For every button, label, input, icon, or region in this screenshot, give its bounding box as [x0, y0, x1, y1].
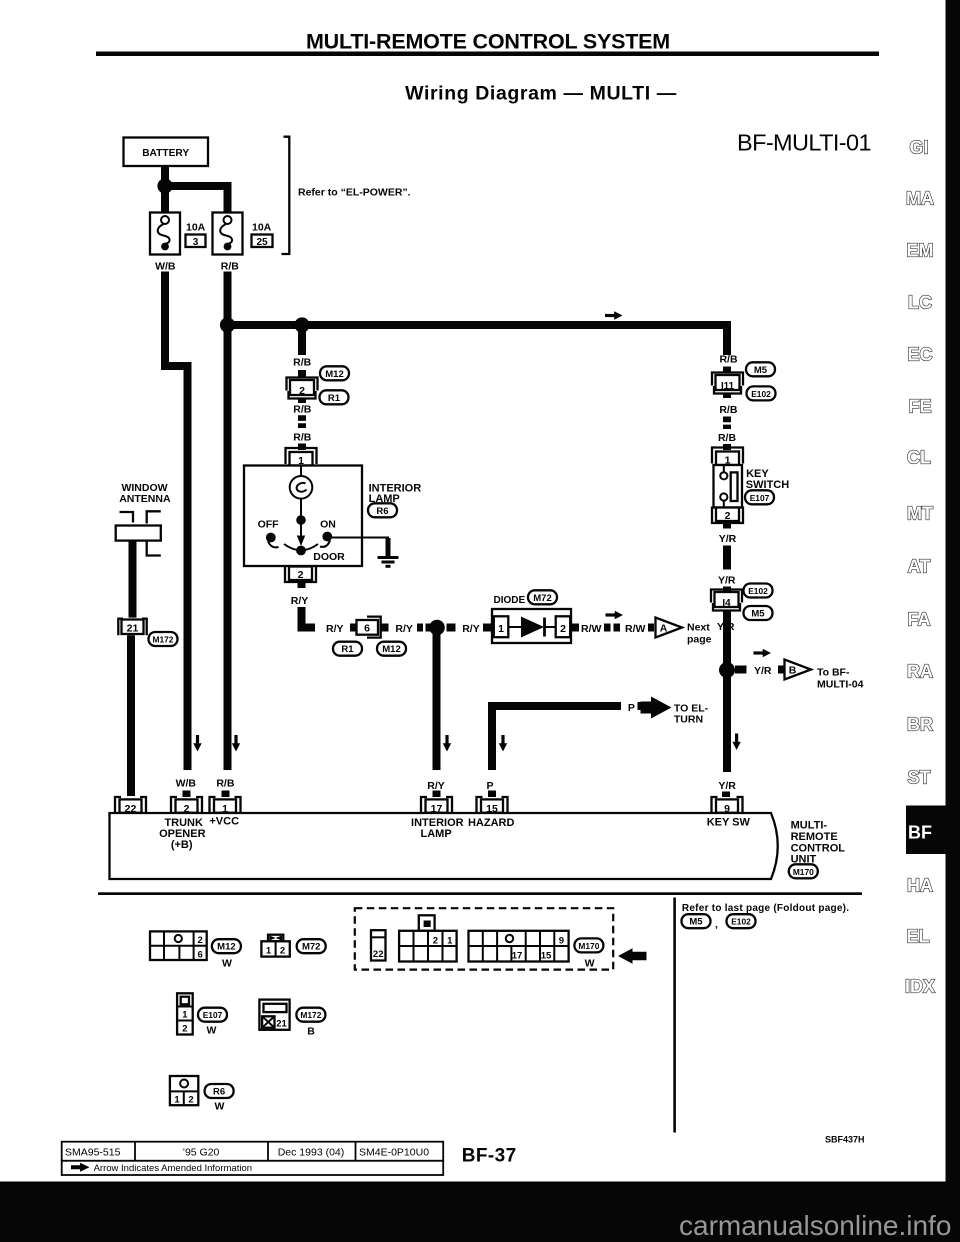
connector id M170: [789, 864, 818, 878]
connector id R6: [368, 503, 397, 517]
amended arrow: [606, 611, 624, 619]
svg-text:M172: M172: [153, 635, 174, 645]
svg-text:(+B): (+B): [171, 839, 193, 851]
svg-text:15: 15: [486, 803, 498, 815]
fuse 25: [213, 213, 243, 255]
connector id M172: [149, 632, 178, 646]
connector 6 R1/M12: [357, 617, 381, 638]
svg-text:Refer to “EL-POWER”.: Refer to “EL-POWER”.: [298, 187, 411, 199]
ground: [378, 558, 399, 567]
connector I4 E102/M5: [711, 590, 742, 611]
svg-text:9: 9: [724, 803, 730, 815]
svg-text:HAZARD: HAZARD: [468, 817, 514, 829]
svg-text:Arrow Indicates Amended Inform: Arrow Indicates Amended Information: [94, 1163, 252, 1174]
connector 2 below key switch: [712, 507, 743, 524]
wire battery down: [161, 166, 169, 213]
svg-text:9: 9: [559, 935, 564, 946]
connector 2 below lamp: [285, 566, 316, 583]
fuse 3: [150, 213, 180, 255]
svg-text:ANTENNA: ANTENNA: [119, 493, 171, 505]
svg-text:R/B: R/B: [293, 403, 312, 415]
battery B+: [124, 137, 732, 797]
connector id M5: [746, 362, 775, 376]
svg-text:W: W: [215, 1101, 225, 1113]
svg-text:IDX: IDX: [905, 977, 935, 997]
svg-text:2: 2: [198, 935, 203, 946]
pinout M172: [259, 1000, 325, 1038]
sidebar section codes: [905, 138, 935, 997]
svg-text:page: page: [687, 634, 712, 646]
svg-text:SM4E-0P10U0: SM4E-0P10U0: [359, 1146, 429, 1158]
key switch output: [711, 507, 773, 798]
svg-text:25: 25: [256, 237, 268, 248]
svg-text:ST: ST: [907, 768, 930, 788]
bus wire R/B: [228, 325, 732, 355]
svg-text:SWITCH: SWITCH: [746, 479, 789, 491]
svg-text:BATTERY: BATTERY: [142, 148, 189, 159]
label MULTI-REMOTE CONTROL UNIT: [791, 819, 846, 865]
connector 21: [118, 618, 146, 636]
svg-text:Y/R: Y/R: [718, 780, 736, 792]
junction dot: [157, 178, 172, 193]
svg-text:CL: CL: [907, 448, 931, 468]
svg-text:2: 2: [560, 623, 566, 635]
svg-text:Y/R: Y/R: [718, 574, 736, 586]
svg-text:carmanualsonline.info: carmanualsonline.info: [679, 1210, 951, 1241]
svg-text:2: 2: [299, 385, 305, 397]
svg-text:W/B: W/B: [155, 260, 176, 272]
pin 2: [556, 616, 571, 637]
wire P: [492, 706, 621, 770]
svg-text:I11: I11: [721, 381, 735, 392]
wire stub: [638, 702, 645, 710]
svg-text:BF-37: BF-37: [462, 1145, 517, 1166]
svg-text:MULTI-REMOTE CONTROL SYSTEM: MULTI-REMOTE CONTROL SYSTEM: [306, 30, 670, 54]
svg-text:10A: 10A: [186, 222, 206, 234]
wire R/Y down and right: [302, 607, 316, 628]
dashed group box: [355, 908, 613, 969]
svg-text:1: 1: [266, 945, 272, 956]
page connector A: [656, 618, 683, 638]
wire Y/R: [723, 546, 731, 570]
connector 1 into lamp: [286, 448, 317, 466]
svg-text:SBF437H: SBF437H: [825, 1135, 865, 1145]
svg-text:2: 2: [433, 935, 438, 946]
svg-text:B: B: [307, 1026, 315, 1038]
pin 9: [712, 797, 743, 813]
svg-text:M12: M12: [217, 942, 235, 953]
svg-text:MT: MT: [907, 504, 933, 524]
pinout M170 small: [371, 930, 386, 960]
wire stub: [723, 587, 731, 593]
svg-text:R/B: R/B: [719, 353, 738, 365]
svg-text:M5: M5: [751, 609, 765, 620]
svg-text:Y/R: Y/R: [754, 665, 772, 677]
svg-text:6: 6: [364, 623, 370, 635]
svg-text:17: 17: [512, 951, 523, 962]
svg-text:M5: M5: [689, 917, 703, 928]
wire stub: [298, 583, 306, 588]
svg-text:21: 21: [276, 1018, 287, 1029]
key slot bar: [731, 472, 738, 501]
svg-text:’95 G20: ’95 G20: [183, 1146, 220, 1158]
wire dot to pin17: [433, 630, 441, 770]
ON contact: [322, 532, 332, 542]
wire stub: [298, 370, 306, 378]
svg-text:E102: E102: [731, 917, 751, 927]
svg-text:1: 1: [498, 623, 504, 635]
wire stub: [648, 624, 654, 632]
svg-text:17: 17: [431, 803, 443, 815]
svg-text:6: 6: [198, 949, 203, 960]
svg-text:M172: M172: [300, 1010, 321, 1020]
junction R/B lamp branch: [294, 317, 309, 332]
svg-text:R/B: R/B: [719, 404, 738, 416]
bottom black band: [0, 1182, 960, 1242]
lamp case: [244, 466, 362, 567]
svg-text:M5: M5: [754, 365, 768, 376]
svg-text:R/W: R/W: [625, 623, 646, 635]
svg-text:P: P: [486, 780, 493, 792]
svg-text:Next: Next: [687, 622, 710, 634]
junction dot: [719, 662, 735, 678]
svg-text:EM: EM: [907, 241, 934, 261]
wire R/B fuse25 down: [224, 272, 232, 771]
svg-text:SMA95-515: SMA95-515: [65, 1146, 121, 1158]
wire stub: [572, 624, 579, 632]
svg-text:2: 2: [188, 1095, 193, 1106]
svg-text:1: 1: [447, 935, 453, 946]
diode to next page: [572, 611, 712, 646]
wire stub: [447, 624, 456, 632]
wire I4 to pin9: [723, 611, 731, 772]
DOOR contact: [296, 546, 306, 556]
svg-text:P: P: [628, 702, 635, 714]
svg-text:R1: R1: [341, 644, 354, 655]
connector I11 M5/E102: [712, 373, 743, 394]
lamp branch wiring: [286, 329, 350, 467]
svg-text:TURN: TURN: [674, 713, 703, 725]
wire stub below connector: [298, 399, 306, 404]
svg-text:MULTI-: MULTI-: [791, 819, 828, 831]
svg-text:R/Y: R/Y: [291, 595, 309, 607]
wire R/B from bus: [298, 329, 306, 355]
amended arrow icon: [71, 1163, 90, 1172]
junction dot: [429, 620, 445, 636]
multi-remote control unit: [110, 797, 778, 879]
wire ON to ground: [332, 538, 389, 553]
svg-text:DIODE: DIODE: [494, 595, 526, 606]
svg-text:M72: M72: [302, 942, 320, 953]
svg-text:2: 2: [280, 945, 285, 956]
connector id E102: [727, 914, 756, 928]
svg-text:R/B: R/B: [718, 432, 737, 444]
svg-text:Wiring Diagram — MULTI —: Wiring Diagram — MULTI —: [405, 83, 677, 105]
connector id M5: [682, 914, 711, 928]
wire stub: [723, 394, 731, 399]
interior lamp R6: [244, 466, 421, 567]
svg-text:E102: E102: [748, 586, 768, 596]
connector id R1: [333, 642, 362, 656]
svg-text:EC: EC: [907, 345, 932, 365]
svg-text:FE: FE: [908, 397, 931, 417]
svg-text:GI: GI: [909, 138, 928, 158]
dashed wire: [417, 624, 432, 632]
pin 1: [494, 616, 509, 637]
wire bulb to switch: [300, 499, 302, 520]
svg-text:10A: 10A: [252, 222, 272, 234]
svg-text:2: 2: [298, 569, 304, 581]
separator line below diagram: [98, 892, 862, 895]
svg-text:M170: M170: [793, 867, 814, 877]
title underline: [96, 52, 879, 57]
pin 2: [171, 797, 202, 813]
svg-text:DOOR: DOOR: [313, 551, 345, 563]
svg-text:LAMP: LAMP: [421, 828, 452, 840]
svg-text:R/W: R/W: [581, 623, 602, 635]
bulb: [290, 476, 313, 499]
connector id M12: [320, 366, 349, 380]
svg-text:LC: LC: [908, 293, 932, 313]
svg-text:REMOTE: REMOTE: [791, 831, 838, 843]
amended arrow down: [732, 734, 740, 751]
connector id M5: [744, 606, 773, 620]
lamp feed wire: [300, 466, 302, 477]
svg-text:Y/R: Y/R: [719, 533, 737, 545]
svg-text:R/B: R/B: [293, 431, 312, 443]
switch junction dot: [296, 515, 306, 525]
wire stub: [723, 367, 731, 374]
hazard branch to EL-TURN: [492, 697, 709, 798]
antenna glass grid symbol: [120, 512, 134, 523]
connector id M12: [377, 642, 406, 656]
pinout M170 middle: [399, 915, 457, 961]
svg-text:E107: E107: [203, 1010, 223, 1020]
key switch branch: [712, 353, 776, 466]
pinout E107: [177, 993, 227, 1036]
svg-text:2: 2: [182, 1024, 187, 1035]
svg-text:M12: M12: [325, 369, 343, 380]
branch to BF-MULTI-04: [735, 649, 864, 691]
key switch E107: [714, 465, 790, 508]
svg-text:I4: I4: [722, 598, 731, 609]
OFF contact: [266, 533, 276, 543]
svg-text:EL: EL: [906, 927, 929, 947]
pin 15: [477, 797, 508, 813]
svg-text:BF-MULTI-01: BF-MULTI-01: [737, 130, 871, 156]
connector id E102: [747, 386, 776, 400]
refer bracket: [282, 137, 290, 254]
svg-text:2: 2: [184, 803, 190, 815]
dashed wire: [298, 415, 306, 428]
wire stub dash: [350, 624, 357, 632]
contact circles: [720, 472, 727, 479]
svg-text:R6: R6: [213, 1087, 225, 1098]
diode case: [492, 609, 571, 643]
svg-text:R1: R1: [328, 393, 341, 404]
amended arrow: [754, 649, 772, 657]
wire stub: [298, 444, 306, 451]
svg-text:W/B: W/B: [176, 778, 197, 790]
svg-text:HA: HA: [907, 876, 933, 896]
page connector B: [785, 660, 812, 680]
dashed wire: [604, 624, 623, 632]
svg-text:A: A: [660, 623, 668, 635]
connector id E107: [745, 490, 774, 504]
wire stub: [723, 524, 731, 529]
svg-text:FA: FA: [907, 610, 930, 630]
svg-text:1: 1: [174, 1095, 180, 1106]
big arrow TO EL-TURN: [641, 697, 672, 719]
big left arrow: [618, 948, 647, 964]
wire stub: [382, 624, 389, 632]
svg-text:W: W: [207, 1025, 217, 1037]
svg-text:1: 1: [222, 803, 228, 815]
wire stub: [778, 666, 784, 674]
svg-text:R/B: R/B: [293, 357, 312, 369]
svg-text:M12: M12: [382, 644, 400, 655]
connector id R1: [320, 390, 349, 404]
svg-text:R/Y: R/Y: [427, 780, 445, 792]
svg-text:Refer to last page (Foldout pa: Refer to last page (Foldout page).: [682, 903, 849, 914]
pin 1: [210, 797, 241, 813]
svg-text:E102: E102: [751, 389, 771, 399]
wire stub: [483, 624, 491, 632]
wire stub: [735, 666, 747, 674]
pinout M12: [150, 931, 241, 969]
junction R/B bus left: [220, 317, 235, 332]
svg-text:MULTI-04: MULTI-04: [817, 678, 864, 690]
svg-text:R/Y: R/Y: [395, 623, 413, 635]
BF section black tab: [906, 806, 946, 855]
svg-text:R/Y: R/Y: [326, 623, 344, 635]
wire antenna down: [129, 541, 137, 618]
diode symbol: [508, 626, 521, 628]
pin 17: [421, 797, 452, 813]
svg-text:B: B: [789, 665, 797, 677]
pinout R6: [170, 1076, 234, 1113]
wire to fuse 25: [165, 186, 228, 213]
svg-text:MA: MA: [906, 189, 934, 209]
svg-text:ON: ON: [320, 518, 336, 530]
contact swing arc: [284, 544, 318, 550]
divider line right of pinouts: [673, 898, 676, 1133]
pin 22: [115, 797, 146, 813]
svg-text:M72: M72: [533, 593, 551, 604]
footer table: [62, 1142, 444, 1175]
svg-text:Dec 1993 (04): Dec 1993 (04): [278, 1146, 345, 1158]
svg-text:R/B: R/B: [221, 260, 240, 272]
wire W/B fuse3 down: [165, 272, 188, 771]
svg-text:22: 22: [373, 949, 384, 960]
svg-text:3: 3: [193, 237, 199, 248]
pinout M170 main: [469, 931, 604, 970]
svg-text:M170: M170: [578, 941, 599, 951]
diode M72: [492, 590, 571, 643]
amended arrow on bus: [605, 311, 623, 319]
svg-text:21: 21: [127, 623, 139, 635]
svg-text:To BF-: To BF-: [817, 666, 850, 678]
svg-text:2: 2: [725, 510, 731, 522]
svg-text:W: W: [585, 957, 595, 969]
battery: [124, 138, 209, 167]
svg-text:W: W: [222, 958, 232, 970]
svg-text:AT: AT: [908, 557, 931, 577]
right page-edge black strip: [946, 0, 960, 1242]
svg-text:,: ,: [715, 919, 718, 931]
svg-text:22: 22: [125, 803, 137, 815]
svg-text:OFF: OFF: [258, 518, 280, 530]
wire 21 to pin22: [127, 635, 135, 796]
svg-text:E107: E107: [750, 493, 770, 503]
svg-text:15: 15: [541, 951, 552, 962]
amended arrows above unit pins: [193, 735, 201, 752]
svg-text:R/Y: R/Y: [462, 623, 480, 635]
contact feed line: [723, 465, 725, 472]
svg-text:KEY SW: KEY SW: [707, 817, 751, 829]
pinout M72: [261, 935, 325, 957]
connector 1 into key switch: [712, 448, 743, 466]
svg-text:RA: RA: [907, 662, 933, 682]
lamp output wiring: [285, 566, 491, 798]
svg-text:+VCC: +VCC: [209, 815, 239, 827]
connector 2 M12/R1: [287, 378, 318, 399]
window antenna: [116, 482, 178, 796]
switch wiper arrow: [300, 520, 302, 536]
dashed wire: [723, 417, 731, 430]
svg-text:R6: R6: [376, 506, 388, 517]
svg-text:BF: BF: [908, 823, 932, 843]
wire stub: [723, 444, 731, 450]
svg-text:1: 1: [182, 1009, 188, 1020]
connector id E102: [744, 584, 773, 598]
svg-text:BR: BR: [907, 715, 933, 735]
svg-text:R/B: R/B: [216, 778, 235, 790]
